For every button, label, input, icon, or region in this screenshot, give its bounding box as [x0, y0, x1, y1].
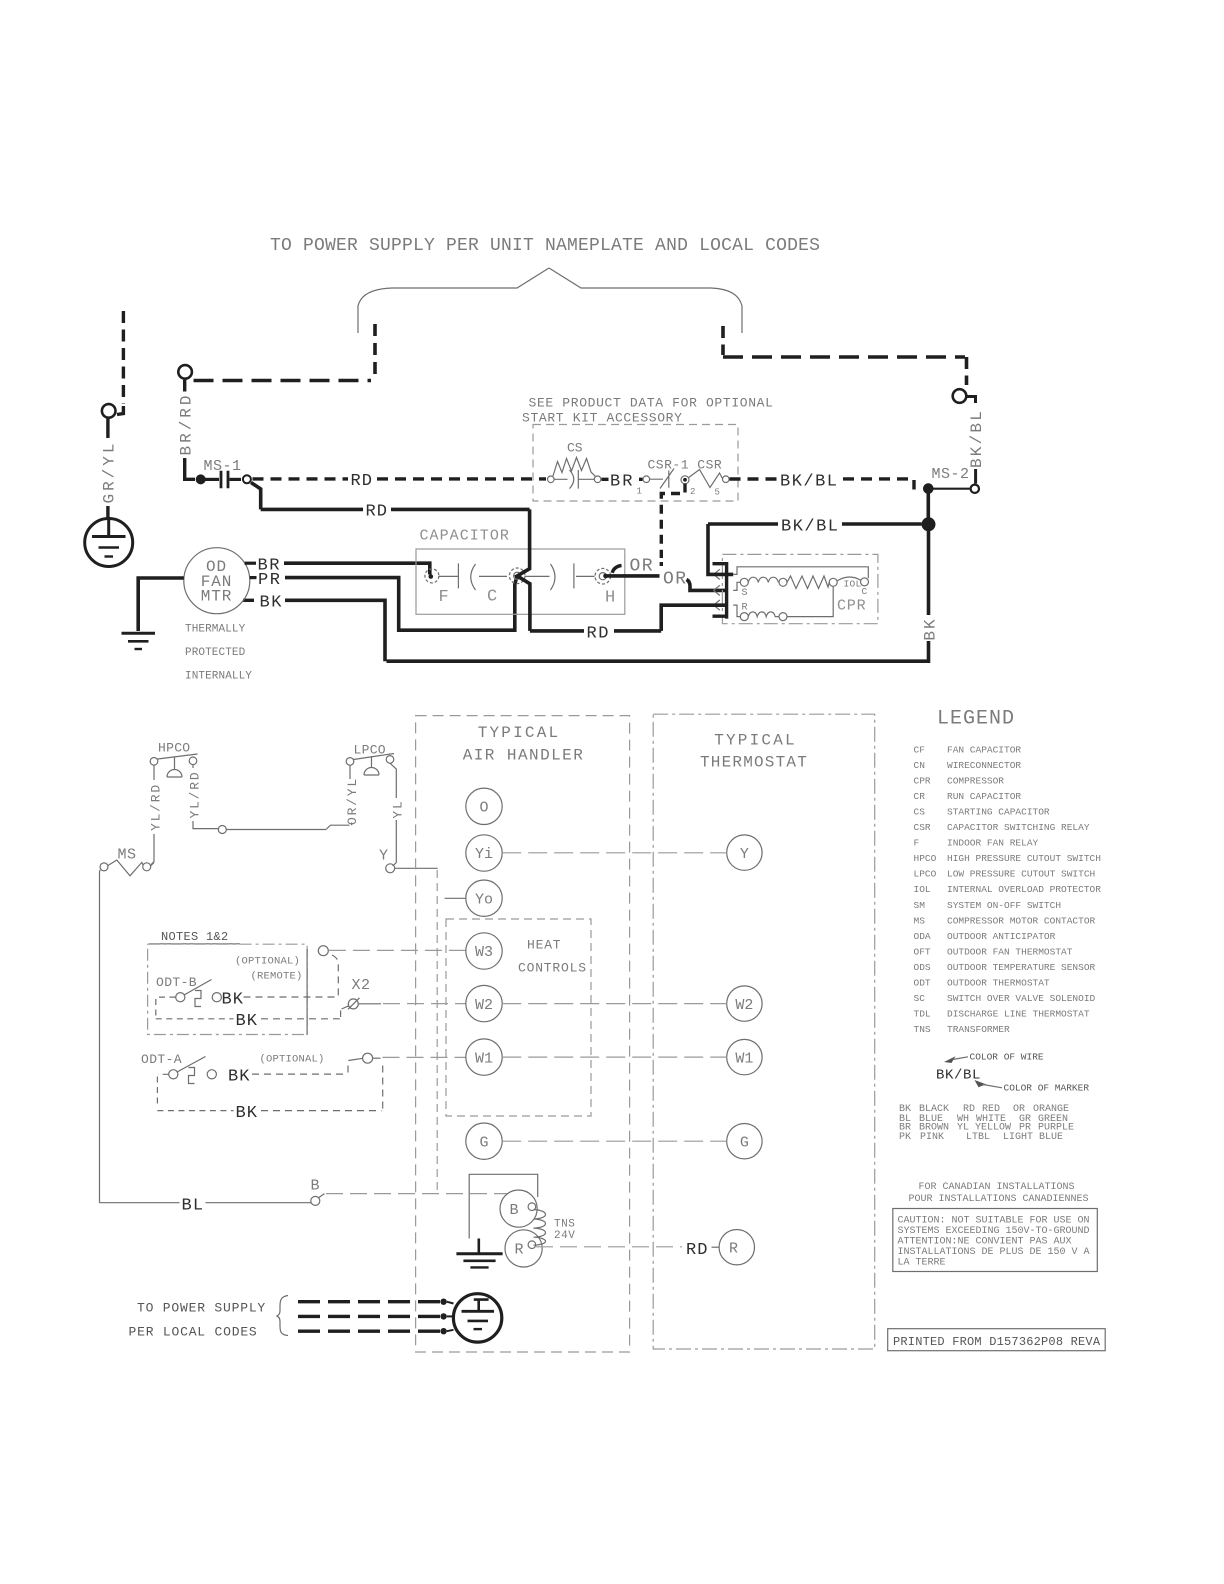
terminal F	[425, 569, 439, 583]
svg-text:W2: W2	[475, 997, 493, 1014]
svg-text:BK/BL: BK/BL	[968, 409, 986, 468]
terminal Y	[386, 864, 395, 873]
svg-text:BR: BR	[610, 473, 634, 492]
svg-text:PK: PK	[899, 1132, 911, 1143]
svg-text:PR: PR	[258, 571, 281, 590]
start kit dashed box	[533, 425, 738, 502]
compressor CPR dash-dot box	[722, 554, 878, 623]
printed-from box	[888, 1329, 1105, 1351]
svg-text:INTERNALLY: INTERNALLY	[185, 671, 252, 683]
run capacitor plates (C-H)	[526, 563, 595, 590]
terminal W2 (air handler)	[466, 985, 502, 1021]
svg-text:OUTDOOR THERMOSTAT: OUTDOOR THERMOSTAT	[947, 977, 1050, 988]
wire BK/BL dashed (CSR to MS-2)	[730, 477, 779, 480]
wire BK vertical (right)	[927, 524, 931, 615]
svg-text:BK: BK	[260, 594, 283, 613]
switch HPCO	[150, 754, 197, 777]
svg-text:TO POWER SUPPLY: TO POWER SUPPLY	[137, 1301, 266, 1316]
protector IOL	[837, 577, 861, 581]
svg-text:G: G	[740, 1134, 749, 1151]
svg-text:CSR-1 CSR: CSR-1 CSR	[648, 458, 723, 473]
transformer TNS terminal B	[500, 1190, 537, 1227]
svg-text:TNS: TNS	[554, 1219, 575, 1231]
wire BK (fan motor run)	[285, 600, 385, 661]
pin PR stub	[250, 576, 257, 579]
svg-text:MS-2: MS-2	[932, 466, 970, 483]
wire brace-right dashed drop	[721, 326, 725, 355]
terminal G (thermostat)	[727, 1124, 762, 1159]
wire RD riser to CPR R row	[661, 605, 726, 631]
callout COLOR OF WIRE	[944, 1056, 956, 1063]
capacitor CS	[548, 458, 601, 489]
wire color table	[899, 1104, 1074, 1143]
svg-text:FOR CANADIAN INSTALLATIONS: FOR CANADIAN INSTALLATIONS	[919, 1182, 1075, 1193]
terminal H	[595, 568, 611, 584]
pin BR stub	[245, 562, 256, 565]
svg-text:F: F	[439, 588, 449, 607]
pin C (CPR)	[861, 578, 869, 586]
svg-text:NOTES 1&2: NOTES 1&2	[161, 930, 229, 944]
terminal BR/RD	[178, 365, 192, 379]
svg-text:LEGEND: LEGEND	[937, 708, 1015, 731]
terminal W1 (thermostat)	[727, 1039, 762, 1074]
wire RD dashed (MS-1 to CS)	[253, 477, 349, 480]
svg-text:LTBL: LTBL	[966, 1132, 990, 1143]
svg-text:FAN CAPACITOR: FAN CAPACITOR	[947, 745, 1021, 756]
svg-text:PROTECTED: PROTECTED	[185, 647, 246, 659]
svg-text:CS: CS	[914, 807, 926, 818]
motor OD FAN MTR	[184, 548, 250, 614]
air handler dashed box	[416, 716, 630, 1352]
svg-text:MTR: MTR	[201, 588, 233, 606]
terminal O (air handler)	[466, 788, 502, 824]
svg-text:ODT-A: ODT-A	[141, 1052, 182, 1067]
terminal C	[509, 568, 525, 584]
svg-text:ODS: ODS	[914, 962, 931, 973]
svg-text:CONTROLS: CONTROLS	[518, 961, 587, 976]
svg-text:CS: CS	[567, 441, 583, 456]
svg-text:BK/BL: BK/BL	[781, 518, 840, 537]
svg-text:W2: W2	[735, 997, 753, 1014]
svg-text:OR: OR	[663, 570, 688, 590]
svg-text:24V: 24V	[554, 1230, 575, 1242]
svg-text:BR/RD: BR/RD	[178, 392, 196, 455]
svg-text:YL/RD: YL/RD	[148, 783, 163, 831]
svg-text:1: 1	[637, 487, 642, 497]
wire B to ground loop	[469, 1174, 538, 1238]
svg-text:CF: CF	[914, 745, 926, 756]
relay contact CSR-1	[643, 469, 674, 489]
svg-text:SYSTEM ON-OFF SWITCH: SYSTEM ON-OFF SWITCH	[947, 900, 1061, 911]
svg-text:(OPTIONAL): (OPTIONAL)	[260, 1054, 325, 1066]
svg-text:ODA: ODA	[914, 931, 931, 942]
svg-text:LOW PRESSURE CUTOUT SWITCH: LOW PRESSURE CUTOUT SWITCH	[947, 869, 1095, 880]
svg-text:PINK: PINK	[920, 1132, 944, 1143]
CPR internal wiring	[733, 567, 868, 617]
svg-text:BL: BL	[182, 1197, 205, 1216]
wire BK/BL drop to CPR C row	[708, 524, 733, 574]
pin 2 (CSR-1)	[681, 476, 689, 484]
junction BK/BL node	[922, 517, 936, 531]
callout COLOR OF MARKER	[975, 1080, 987, 1087]
svg-text:INDOOR FAN RELAY: INDOOR FAN RELAY	[947, 838, 1039, 849]
terminal W1 (air handler)	[466, 1039, 502, 1075]
winding R	[740, 613, 748, 621]
wire BR dashes	[602, 478, 643, 481]
thermostat dash-dot box	[653, 714, 875, 1349]
svg-text:C: C	[862, 586, 868, 597]
ground (24V circuit)	[477, 1239, 480, 1254]
svg-text:F: F	[914, 838, 920, 849]
svg-text:START KIT ACCESSORY: START KIT ACCESSORY	[522, 411, 683, 426]
svg-text:TYPICAL: TYPICAL	[478, 724, 561, 742]
internal resistor	[787, 576, 829, 589]
wire BK/BL vertical	[926, 493, 930, 520]
power supply brace	[358, 268, 742, 333]
svg-text:TNS: TNS	[914, 1024, 931, 1035]
wireconnector CN	[218, 826, 226, 834]
wire BR/RD stub	[183, 380, 186, 392]
svg-text:(OPTIONAL): (OPTIONAL)	[235, 956, 300, 968]
wire OR/YL (LPCO left drop)	[350, 765, 352, 825]
svg-text:HPCO: HPCO	[914, 853, 937, 864]
svg-text:WIRECONNECTOR: WIRECONNECTOR	[947, 760, 1021, 771]
svg-text:INTERNAL OVERLOAD PROTECTOR: INTERNAL OVERLOAD PROTECTOR	[947, 884, 1101, 895]
svg-text:X2: X2	[352, 977, 371, 994]
ground (fan motor)	[122, 632, 156, 635]
svg-text:TDL: TDL	[914, 1008, 931, 1019]
svg-text:TO POWER SUPPLY PER UNIT NAMEP: TO POWER SUPPLY PER UNIT NAMEPLATE AND L…	[270, 236, 820, 256]
svg-text:HPCO: HPCO	[158, 741, 190, 756]
svg-text:COMPRESSOR MOTOR CONTACTOR: COMPRESSOR MOTOR CONTACTOR	[947, 915, 1096, 926]
wire motor common to ground	[138, 578, 184, 631]
wire BK dashed (ODT-B to W3 riser)	[244, 996, 337, 998]
terminal GR/YL	[102, 404, 116, 418]
caution box	[893, 1209, 1098, 1272]
run capacitor plates (F-C)	[439, 563, 507, 590]
svg-text:SWITCH OVER VALVE SOLENOID: SWITCH OVER VALVE SOLENOID	[947, 993, 1096, 1004]
switch LPCO	[346, 754, 394, 776]
ground (earth circle, local codes)	[453, 1294, 501, 1342]
terminal Y (thermostat)	[727, 835, 762, 870]
svg-text:R: R	[729, 1240, 738, 1257]
capacitor box	[416, 549, 625, 614]
svg-text:OUTDOOR FAN THERMOSTAT: OUTDOOR FAN THERMOSTAT	[947, 946, 1073, 957]
svg-text:2: 2	[690, 487, 695, 497]
wire power L2 dashed	[298, 1315, 440, 1318]
svg-text:PER LOCAL CODES: PER LOCAL CODES	[129, 1325, 258, 1340]
svg-text:C: C	[487, 588, 497, 607]
contactor MS-2	[923, 483, 934, 494]
svg-text:B: B	[311, 1178, 320, 1195]
svg-text:Yi: Yi	[475, 846, 493, 863]
svg-text:LIGHT BLUE: LIGHT BLUE	[1003, 1132, 1063, 1143]
svg-text:BK/BL: BK/BL	[936, 1068, 981, 1084]
svg-text:CN: CN	[914, 760, 925, 771]
svg-text:BK: BK	[236, 1104, 258, 1123]
svg-text:W1: W1	[735, 1050, 753, 1067]
wire W1 dashed	[383, 1056, 466, 1058]
svg-text:O: O	[479, 800, 488, 817]
wire W1-W1 dashed	[502, 1056, 727, 1058]
svg-text:POUR INSTALLATIONS CANADIENNES: POUR INSTALLATIONS CANADIENNES	[909, 1194, 1089, 1205]
svg-text:H: H	[605, 589, 615, 608]
switch MS (system on-off)	[100, 860, 154, 876]
svg-text:CAPACITOR SWITCHING RELAY: CAPACITOR SWITCHING RELAY	[947, 822, 1090, 833]
svg-text:Yo: Yo	[475, 891, 493, 908]
wire power L1 dashed	[298, 1300, 440, 1303]
svg-text:BK: BK	[922, 617, 940, 640]
wire BL	[100, 870, 180, 1203]
svg-text:Y: Y	[379, 848, 388, 865]
wire BR to capacitor F	[284, 563, 430, 574]
terminal G (air handler)	[466, 1123, 502, 1159]
notes dash-dot box	[148, 944, 308, 1034]
wire B dashed to transformer	[326, 1193, 507, 1195]
svg-text:INSTALLATIONS DE PLUS DE 150 V: INSTALLATIONS DE PLUS DE 150 V A	[898, 1247, 1090, 1258]
svg-text:LA TERRE: LA TERRE	[898, 1257, 946, 1268]
wireconnector chevrons	[714, 569, 720, 610]
heat controls dashed box	[446, 919, 591, 1116]
svg-text:RD: RD	[587, 625, 610, 644]
transformer TNS coil	[528, 1203, 536, 1211]
svg-text:BK: BK	[228, 1068, 250, 1087]
svg-text:THERMOSTAT: THERMOSTAT	[700, 754, 808, 772]
svg-text:THERMALLY: THERMALLY	[185, 624, 246, 636]
terminal W1 field circle	[363, 1053, 373, 1063]
svg-text:IOL: IOL	[914, 884, 931, 895]
svg-text:YL: YL	[391, 799, 406, 818]
svg-text:MS: MS	[914, 915, 926, 926]
wire YL (LPCO right drop)	[390, 763, 396, 798]
wire Yo-B dashed riser	[436, 870, 438, 1194]
wire X2 to W2	[359, 1003, 381, 1005]
thermostat ODT-B	[176, 980, 222, 1007]
wire PR to capacitor C	[285, 576, 517, 630]
svg-text:(REMOTE): (REMOTE)	[251, 971, 303, 983]
svg-text:TYPICAL: TYPICAL	[714, 732, 797, 750]
brace (local codes)	[277, 1296, 289, 1336]
svg-text:B: B	[509, 1202, 518, 1219]
svg-text:RD: RD	[366, 503, 388, 522]
svg-text:CSR: CSR	[914, 822, 931, 833]
svg-text:ODT: ODT	[914, 977, 931, 988]
svg-text:GR/YL: GR/YL	[101, 440, 119, 503]
wire power GND dashed	[298, 1329, 440, 1332]
svg-text:ODT-B: ODT-B	[156, 975, 197, 990]
svg-text:AIR HANDLER: AIR HANDLER	[463, 747, 585, 765]
svg-text:COLOR OF MARKER: COLOR OF MARKER	[1004, 1083, 1090, 1094]
svg-text:R: R	[514, 1242, 523, 1259]
wire BK dashed (ODT-B left loop)	[156, 997, 234, 1019]
connector bar (CPR plug)	[713, 562, 727, 619]
svg-text:TRANSFORMER: TRANSFORMER	[947, 1024, 1010, 1035]
svg-text:MS-1: MS-1	[204, 458, 242, 475]
svg-text:YL/RD: YL/RD	[187, 770, 202, 818]
terminal Yo (air handler)	[466, 880, 502, 916]
wire brace-left dashed drop	[373, 324, 377, 381]
wire W2-W2 dashed	[502, 1003, 727, 1005]
wire W3 dashed	[329, 949, 466, 951]
svg-text:BK/BL: BK/BL	[780, 473, 839, 492]
terminal W3 field circle	[318, 946, 328, 956]
svg-text:ATTENTION:NE CONVIENT PAS AUX: ATTENTION:NE CONVIENT PAS AUX	[898, 1237, 1072, 1248]
svg-text:W1: W1	[475, 1050, 493, 1067]
wire GR/YL stub	[106, 419, 109, 439]
wire RD (to capacitor C and CPR R)	[517, 509, 584, 631]
wire BR/RD dashed horizontal	[194, 379, 372, 383]
svg-text:DISCHARGE LINE THERMOSTAT: DISCHARGE LINE THERMOSTAT	[947, 1008, 1090, 1019]
svg-text:5: 5	[715, 488, 720, 498]
svg-text:RUN CAPACITOR: RUN CAPACITOR	[947, 791, 1021, 802]
svg-text:SM: SM	[914, 900, 926, 911]
wire YL/RD (HPCO right drop)	[192, 765, 194, 768]
svg-text:OUTDOOR ANTICIPATOR: OUTDOOR ANTICIPATOR	[947, 931, 1056, 942]
svg-text:IOL: IOL	[844, 579, 862, 590]
transformer TNS terminal R	[505, 1230, 542, 1267]
svg-text:OFT: OFT	[914, 946, 931, 957]
wire BK dashed (ODT-A left loop)	[157, 1074, 233, 1110]
svg-text:CR: CR	[914, 791, 926, 802]
svg-text:COLOR OF WIRE: COLOR OF WIRE	[970, 1052, 1044, 1063]
svg-text:BK: BK	[222, 991, 244, 1010]
svg-text:PRINTED FROM D157362P08 REVA: PRINTED FROM D157362P08 REVA	[893, 1335, 1101, 1349]
terminal BK/BL (right)	[953, 389, 967, 403]
svg-text:HIGH PRESSURE CUTOUT SWITCH: HIGH PRESSURE CUTOUT SWITCH	[947, 853, 1101, 864]
wire RD solid (MS-1 branch)	[251, 483, 363, 510]
svg-text:OR/YL: OR/YL	[345, 777, 360, 825]
svg-text:LPCO: LPCO	[914, 869, 937, 880]
relay coil CSR	[689, 470, 723, 488]
svg-text:SEE PRODUCT DATA FOR OPTIONAL: SEE PRODUCT DATA FOR OPTIONAL	[529, 396, 774, 411]
wire G-G dashed	[502, 1140, 727, 1142]
svg-text:BK: BK	[236, 1012, 258, 1031]
svg-text:RD: RD	[351, 472, 373, 491]
svg-text:SC: SC	[914, 993, 926, 1004]
terminal X2	[348, 999, 358, 1009]
svg-text:RD: RD	[686, 1241, 708, 1260]
svg-text:Y: Y	[740, 846, 749, 863]
legend rows	[914, 745, 1102, 1036]
svg-text:CAUTION: NOT SUITABLE FOR USE: CAUTION: NOT SUITABLE FOR USE ON	[898, 1216, 1090, 1227]
wire R-RD-R dashed	[536, 1246, 682, 1248]
ground (earth circle, GR/YL)	[85, 519, 133, 567]
svg-text:OR: OR	[630, 557, 655, 577]
svg-text:HEAT: HEAT	[527, 938, 561, 953]
terminal R (thermostat)	[719, 1230, 754, 1265]
wire GR/YL dashed drop	[122, 311, 125, 404]
wire OR dashed (CSR pin2 down to H)	[661, 484, 685, 559]
wire YL/RD (HPCO left drop)	[153, 765, 155, 780]
wire BK dashed (ODT-A to W1)	[252, 1062, 348, 1074]
terminal W2 (thermostat)	[727, 986, 762, 1021]
svg-text:OUTDOOR TEMPERATURE SENSOR: OUTDOOR TEMPERATURE SENSOR	[947, 962, 1096, 973]
svg-text:CAPACITOR: CAPACITOR	[420, 528, 510, 545]
svg-text:STARTING CAPACITOR: STARTING CAPACITOR	[947, 807, 1050, 818]
wire Yi-Y dashed	[502, 852, 727, 854]
terminal W3 (air handler)	[466, 933, 502, 969]
wire OR solid (H to CPR S)	[604, 574, 660, 578]
svg-text:CPR: CPR	[914, 776, 931, 787]
svg-text:R: R	[742, 603, 748, 614]
wire Y control run	[226, 825, 349, 829]
contactor MS-1	[196, 474, 206, 484]
svg-text:G: G	[479, 1134, 488, 1151]
svg-text:S: S	[742, 588, 748, 599]
svg-text:CPR: CPR	[837, 598, 866, 615]
svg-text:COMPRESSOR: COMPRESSOR	[947, 776, 1004, 787]
svg-text:W3: W3	[475, 944, 493, 961]
winding S	[740, 578, 748, 586]
terminal Yi (air handler)	[466, 835, 502, 871]
svg-text:SYSTEMS EXCEEDING 150V-TO-GROU: SYSTEMS EXCEEDING 150V-TO-GROUND	[898, 1226, 1090, 1237]
wire Y to Yo	[395, 868, 466, 898]
svg-text:MS: MS	[118, 847, 137, 864]
thermostat ODT-A	[169, 1057, 217, 1084]
wire BK/BL solid (to CPR)	[708, 522, 778, 526]
